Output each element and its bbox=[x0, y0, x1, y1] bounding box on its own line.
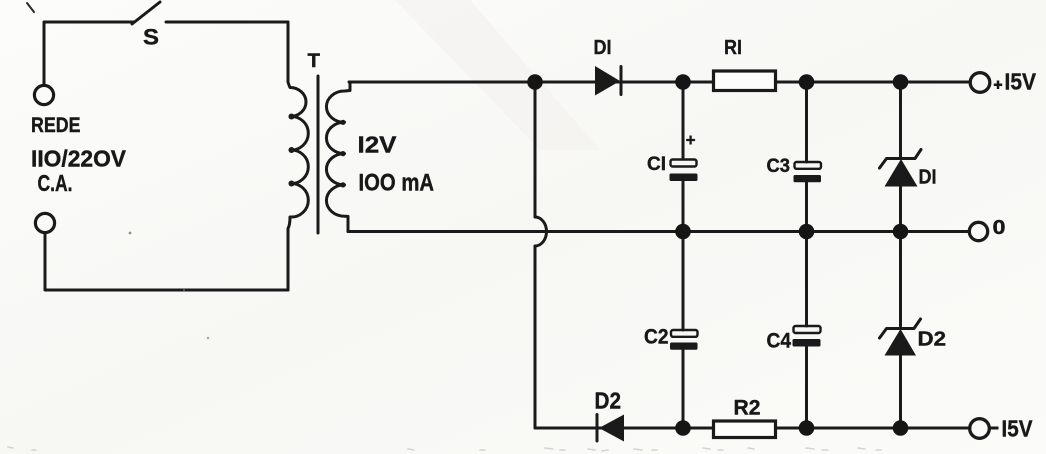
svg-text:DI: DI bbox=[919, 166, 937, 189]
resistor R2 bbox=[714, 421, 776, 438]
svg-text:C2: C2 bbox=[644, 325, 669, 349]
svg-text:IOO mA: IOO mA bbox=[359, 170, 435, 197]
svg-text:I2V: I2V bbox=[358, 132, 398, 158]
zener D1 bbox=[880, 82, 922, 232]
capacitor C1 bbox=[670, 82, 698, 232]
scan streak bbox=[395, 0, 600, 150]
capacitor C3 bbox=[794, 82, 822, 232]
svg-text:IIO/22OV: IIO/22OV bbox=[31, 146, 126, 172]
svg-text:C4: C4 bbox=[767, 329, 792, 353]
resistor R1 bbox=[714, 71, 776, 91]
svg-text:D2: D2 bbox=[918, 328, 947, 351]
svg-text:RI: RI bbox=[724, 36, 742, 59]
svg-text:I5V: I5V bbox=[1005, 69, 1037, 95]
wire switch to transformer bbox=[166, 21, 288, 24]
wire bottom-left bbox=[45, 233, 288, 290]
primary cusp blobs bbox=[289, 114, 295, 187]
svg-text:D2: D2 bbox=[595, 388, 622, 414]
svg-text:0: 0 bbox=[993, 216, 1006, 239]
secondary cusp blobs bbox=[340, 120, 345, 188]
diode D1 bbox=[595, 66, 621, 96]
wire hop over 0 rail bbox=[535, 217, 547, 246]
junction dots middle rail bbox=[675, 224, 908, 240]
svg-text:R2: R2 bbox=[734, 396, 761, 420]
wire top rail bbox=[349, 81, 970, 84]
wire vertical to bottom rail bbox=[534, 246, 537, 428]
wire bottom rail bbox=[535, 427, 970, 430]
scan tick top-left bbox=[27, 3, 34, 12]
svg-text:C.A.: C.A. bbox=[38, 170, 73, 196]
terminal 0 bbox=[969, 216, 1005, 241]
transformer core bbox=[317, 76, 320, 233]
scan dot near 580,287 bbox=[183, 289, 185, 291]
transformer secondary winding bbox=[326, 82, 350, 232]
svg-text:REDE: REDE bbox=[31, 113, 81, 137]
wire middle rail (0) bbox=[348, 230, 969, 233]
scan dot near 208,338 bbox=[207, 337, 210, 340]
capacitor C4 bbox=[793, 232, 821, 429]
capacitor C2 bbox=[670, 232, 698, 429]
wire vertical from top rail junction bbox=[534, 82, 537, 217]
wire top-left to switch bbox=[44, 22, 134, 85]
scan noise bottom bbox=[8, 447, 881, 451]
switch S blade bbox=[132, 2, 160, 24]
svg-text:CI: CI bbox=[647, 154, 666, 175]
junction dots bottom rail bbox=[675, 420, 908, 436]
svg-text:DI: DI bbox=[594, 36, 612, 59]
terminal REDE top bbox=[34, 85, 53, 104]
svg-text:I5V: I5V bbox=[1002, 416, 1033, 442]
terminal -15V bbox=[970, 416, 1033, 442]
diode D2 bbox=[597, 415, 624, 442]
junction dots top rail bbox=[527, 74, 908, 90]
zener D2 bbox=[880, 232, 921, 429]
terminal +15V bbox=[970, 69, 1036, 95]
transformer T primary winding bbox=[288, 22, 308, 290]
svg-text:C3: C3 bbox=[767, 156, 791, 177]
svg-text:T: T bbox=[308, 50, 321, 72]
svg-text:S: S bbox=[143, 25, 159, 50]
scan dot near 130,233 bbox=[129, 232, 132, 235]
terminal REDE bottom bbox=[35, 213, 54, 232]
